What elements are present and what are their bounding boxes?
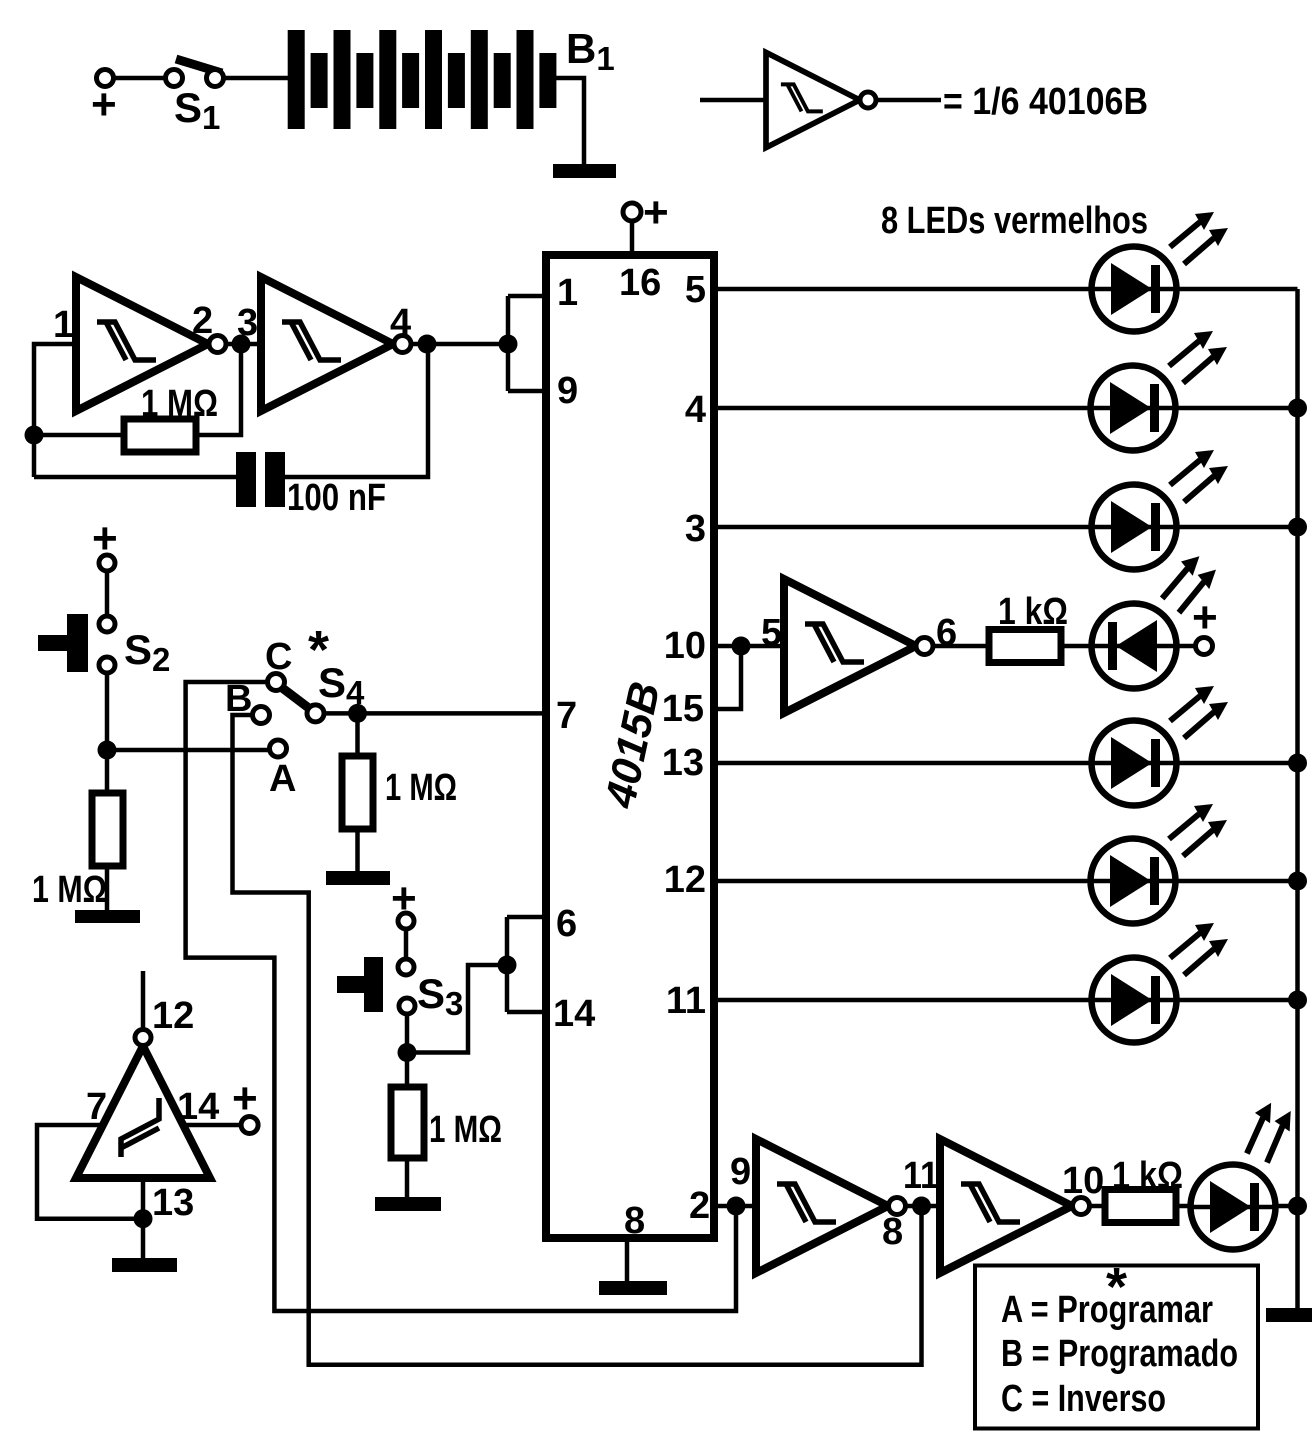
svg-text:1 MΩ: 1 MΩ [429, 1109, 502, 1151]
svg-text:11: 11 [666, 980, 706, 1022]
svg-text:12: 12 [664, 859, 706, 901]
svg-text:16: 16 [619, 262, 661, 304]
svg-text:2: 2 [689, 1185, 710, 1227]
svg-text:10: 10 [664, 625, 706, 667]
svg-text:A: A [269, 758, 296, 800]
svg-text:+: + [643, 188, 669, 237]
svg-text:5: 5 [761, 612, 782, 654]
svg-text:B: B [225, 678, 252, 720]
svg-text:*: * [308, 620, 329, 680]
svg-text:8 LEDs vermelhos: 8 LEDs vermelhos [881, 200, 1148, 242]
svg-text:9: 9 [557, 370, 578, 412]
svg-text:7: 7 [556, 695, 577, 737]
svg-text:1: 1 [53, 304, 74, 346]
svg-text:+: + [391, 874, 417, 923]
svg-text:8: 8 [624, 1200, 645, 1242]
svg-text:12: 12 [152, 995, 194, 1037]
svg-text:+: + [232, 1074, 258, 1123]
svg-text:8: 8 [882, 1211, 903, 1253]
svg-text:+: + [91, 80, 117, 129]
svg-text:1 MΩ: 1 MΩ [385, 767, 457, 809]
svg-text:10: 10 [1062, 1160, 1104, 1202]
svg-text:14: 14 [553, 993, 595, 1035]
svg-text:6: 6 [556, 903, 577, 945]
svg-text:+: + [1192, 593, 1218, 642]
svg-text:1: 1 [557, 272, 578, 314]
svg-text:= 1/6 40106B: = 1/6 40106B [943, 81, 1148, 123]
svg-text:4: 4 [390, 302, 411, 344]
svg-text:100 nF: 100 nF [287, 477, 386, 519]
svg-text:7: 7 [86, 1086, 107, 1128]
svg-text:C: C [265, 636, 292, 678]
svg-text:6: 6 [936, 612, 957, 654]
svg-text:1 MΩ: 1 MΩ [32, 869, 107, 911]
svg-text:3: 3 [685, 508, 706, 550]
svg-text:1 kΩ: 1 kΩ [1112, 1155, 1183, 1197]
svg-text:4: 4 [685, 389, 706, 431]
svg-text:3: 3 [237, 302, 258, 344]
svg-text:13: 13 [152, 1182, 194, 1224]
svg-text:1 MΩ: 1 MΩ [141, 383, 218, 425]
svg-text:+: + [92, 514, 118, 563]
svg-text:5: 5 [685, 269, 706, 311]
svg-text:11: 11 [903, 1155, 939, 1197]
svg-text:C = Inverso: C = Inverso [1001, 1378, 1166, 1420]
svg-text:9: 9 [730, 1151, 751, 1193]
svg-text:13: 13 [662, 742, 704, 784]
svg-text:14: 14 [177, 1086, 219, 1128]
svg-text:2: 2 [192, 300, 213, 342]
svg-text:*: * [1106, 1257, 1127, 1317]
svg-text:1 kΩ: 1 kΩ [998, 591, 1068, 633]
svg-text:B = Programado: B = Programado [1001, 1333, 1238, 1375]
svg-text:15: 15 [662, 688, 704, 730]
